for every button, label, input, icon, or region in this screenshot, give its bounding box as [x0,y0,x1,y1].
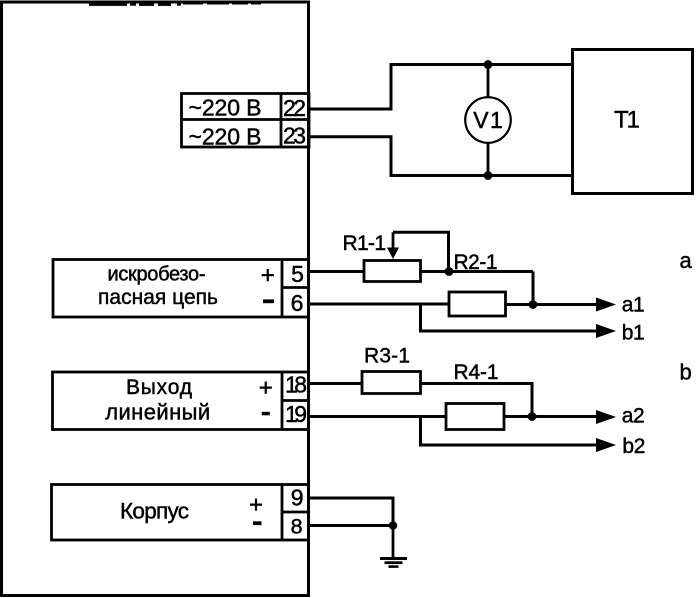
svg-text:a2: a2 [622,405,645,428]
svg-text:19: 19 [285,401,307,427]
wire from terminal 23 [309,137,571,176]
minus sign [262,412,270,416]
wire terminal 5 to R1-1 [309,270,364,273]
node: V1 bottom junction [484,171,493,180]
node R1 output junction [445,267,454,276]
svg-text:~220 В: ~220 В [189,124,262,150]
arrow b1 [596,324,616,338]
svg-text:b: b [680,360,692,385]
svg-text:R1-1: R1-1 [343,232,387,255]
ground symbol [380,557,407,568]
arrow b2 [596,438,616,452]
svg-text:8: 8 [291,515,303,539]
resistor R4-1 [446,404,504,430]
svg-text:+: + [261,262,275,289]
resistor R1-1 (adjustable) [364,261,421,282]
wire from terminal 22 [309,65,571,110]
svg-text:пасная цепь: пасная цепь [98,286,218,309]
resistor R2-1 [449,292,506,316]
svg-text:искробезо-: искробезо- [108,264,206,286]
svg-text:6: 6 [291,290,304,316]
minus sign [263,299,274,303]
chassis terminal box [52,485,309,541]
svg-text:Корпус: Корпус [120,499,189,524]
wire R4-1 to arrow a2 [504,415,597,418]
svg-text:a1: a1 [622,294,645,317]
svg-text:Т1: Т1 [614,107,640,134]
device enclosure outline [2,2,309,596]
linear output terminal box [53,372,309,430]
node a1 junction [529,300,538,309]
svg-text:V1: V1 [473,107,503,133]
wire terminal 8 [309,524,393,527]
wire terminal 6 to R2-1 [309,303,449,306]
node a2 junction [528,412,537,421]
wire to ground [392,526,395,558]
wire terminal 18 to R3-1 [309,382,362,385]
mains terminal box ~220 V [182,94,310,148]
svg-text:+: + [259,375,273,402]
svg-text:23: 23 [283,123,306,149]
wiper link wire [393,232,449,271]
svg-text:линейный: линейный [105,400,210,425]
svg-text:22: 22 [283,95,306,121]
arrow a2 [596,410,616,424]
svg-text:~220 В: ~220 В [189,95,262,121]
svg-text:b2: b2 [622,435,645,458]
arrow a1 [596,298,616,312]
wire R1-1 to node [421,270,534,273]
wire R3-1 to a2 node [421,384,533,417]
wire V1 vertical leads [487,65,490,98]
wire branch to b2 [421,417,598,446]
svg-text:5: 5 [291,261,304,287]
minus sign [253,521,262,525]
wire down to a1 node [532,272,535,305]
svg-text:9: 9 [291,485,304,511]
node: V1 top junction [484,60,493,69]
svg-text:R3-1: R3-1 [364,345,410,368]
wire terminal 9 [309,498,393,526]
voltmeter V1 [465,97,511,143]
wire branch to b1 [421,304,598,331]
wiper arrow of R1-1 [392,232,395,248]
cut-off caption remnant at top [89,3,261,6]
svg-text:a: a [680,248,693,273]
svg-text:+: + [249,492,263,519]
node ground junction [389,521,398,530]
svg-text:b1: b1 [622,322,645,345]
transformer T1 box [573,50,693,194]
svg-text:Выход: Выход [126,376,192,399]
intrinsically-safe circuit terminal box [53,260,309,318]
svg-text:18: 18 [285,372,307,398]
wire R2-1 to arrow a1 [506,303,598,306]
svg-text:R2-1: R2-1 [454,251,498,274]
resistor R3-1 [362,372,421,394]
wire terminal 19 to R4-1 [309,415,446,418]
svg-text:R4-1: R4-1 [454,361,499,384]
